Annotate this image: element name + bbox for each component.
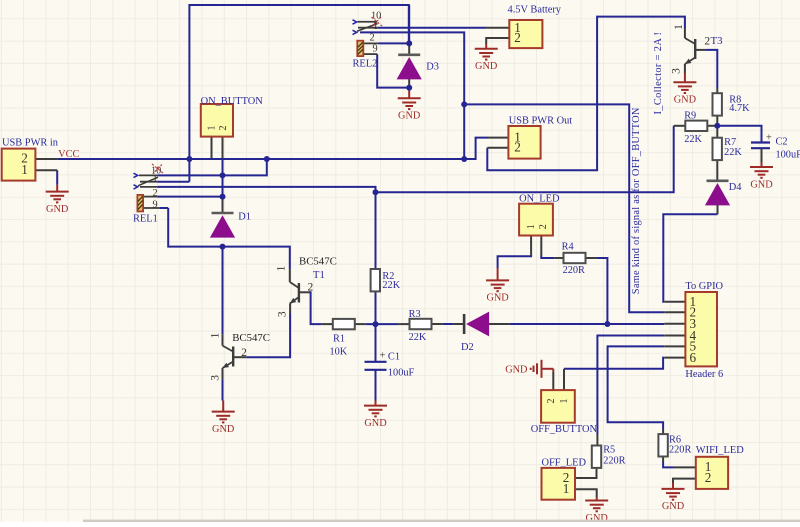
svg-text:1: 1	[563, 481, 570, 496]
svg-text:22K: 22K	[382, 280, 400, 291]
svg-text:C2: C2	[776, 136, 788, 147]
svg-text:2: 2	[546, 399, 557, 404]
svg-text:22K: 22K	[724, 147, 742, 158]
svg-text:1: 1	[207, 126, 218, 131]
svg-text:2: 2	[218, 126, 229, 131]
svg-text:GND: GND	[505, 364, 528, 375]
svg-text:2: 2	[538, 224, 549, 229]
svg-text:D3: D3	[426, 62, 439, 73]
svg-text:To GPIO: To GPIO	[685, 281, 723, 292]
svg-text:R9: R9	[684, 111, 696, 122]
svg-text:2: 2	[704, 36, 710, 48]
svg-text:2: 2	[153, 188, 158, 199]
svg-text:220R: 220R	[563, 265, 585, 276]
svg-text:1: 1	[373, 21, 378, 32]
svg-text:1: 1	[153, 174, 158, 185]
svg-text:T3: T3	[711, 35, 723, 47]
svg-text:T1: T1	[313, 269, 325, 281]
svg-text:ON_BUTTON: ON_BUTTON	[201, 96, 264, 107]
svg-text:Header 6: Header 6	[685, 369, 723, 380]
svg-text:10K: 10K	[330, 346, 348, 357]
svg-text:OFF_BUTTON: OFF_BUTTON	[531, 424, 598, 435]
svg-text:220R: 220R	[603, 455, 625, 466]
svg-text:GND: GND	[674, 95, 697, 106]
svg-text:100uF: 100uF	[776, 149, 800, 160]
svg-text:GND: GND	[212, 424, 235, 435]
svg-text:D2: D2	[461, 342, 474, 353]
svg-text:VCC: VCC	[58, 149, 79, 160]
svg-text:BC547C: BC547C	[299, 255, 337, 267]
svg-text:9: 9	[373, 44, 378, 55]
svg-text:4.5V Battery: 4.5V Battery	[508, 4, 562, 15]
svg-text:9: 9	[153, 199, 158, 210]
svg-text:100uF: 100uF	[388, 368, 415, 379]
svg-text:4.7K: 4.7K	[729, 103, 750, 114]
svg-text:GND: GND	[475, 61, 498, 72]
svg-text:GND: GND	[398, 111, 421, 122]
svg-text:3: 3	[277, 311, 289, 317]
svg-text:1: 1	[673, 24, 685, 30]
svg-text:6: 6	[690, 350, 697, 365]
svg-text:ON_LED: ON_LED	[519, 194, 560, 205]
svg-text:GND: GND	[364, 418, 387, 429]
svg-text:GND: GND	[662, 501, 685, 512]
svg-text:D4: D4	[729, 182, 743, 193]
svg-text:R4: R4	[562, 242, 574, 253]
svg-text:GND: GND	[750, 179, 773, 190]
svg-text:2: 2	[514, 30, 521, 45]
svg-text:I_Collector = 2A !: I_Collector = 2A !	[653, 32, 664, 115]
svg-text:WIFI_LED: WIFI_LED	[696, 445, 744, 456]
svg-text:1: 1	[210, 332, 222, 338]
svg-text:Same kind of signal as for OFF: Same kind of signal as for OFF_BUTTON	[631, 107, 642, 294]
svg-text:1: 1	[276, 265, 288, 271]
svg-text:REL2: REL2	[353, 59, 378, 70]
svg-text:2: 2	[514, 140, 521, 155]
svg-text:1: 1	[21, 162, 28, 177]
svg-text:R1: R1	[333, 333, 345, 344]
svg-text:GND: GND	[46, 204, 69, 215]
svg-text:1: 1	[559, 399, 570, 404]
svg-text:REL1: REL1	[133, 213, 158, 224]
svg-text:R3: R3	[409, 309, 421, 320]
svg-text:2: 2	[241, 347, 247, 359]
svg-text:220R: 220R	[669, 445, 691, 456]
svg-text:R5: R5	[603, 444, 615, 455]
svg-text:GND: GND	[486, 293, 509, 304]
svg-text:D1: D1	[238, 212, 251, 223]
svg-text:USB PWR in: USB PWR in	[2, 138, 59, 149]
svg-text:2: 2	[308, 281, 314, 293]
svg-text:+: +	[380, 350, 386, 361]
svg-text:2: 2	[705, 470, 712, 485]
svg-text:1: 1	[526, 224, 537, 229]
svg-text:10: 10	[371, 11, 381, 22]
svg-text:OFF_LED: OFF_LED	[542, 457, 587, 468]
svg-text:22K: 22K	[684, 134, 702, 145]
svg-text:2: 2	[370, 33, 375, 44]
svg-text:22K: 22K	[409, 332, 427, 343]
svg-text:BC547C: BC547C	[232, 332, 270, 344]
svg-text:C1: C1	[388, 351, 400, 362]
svg-text:USB PWR Out: USB PWR Out	[509, 115, 573, 126]
svg-text:3: 3	[209, 375, 221, 381]
svg-text:3: 3	[671, 68, 683, 74]
svg-text:+: +	[766, 133, 772, 144]
